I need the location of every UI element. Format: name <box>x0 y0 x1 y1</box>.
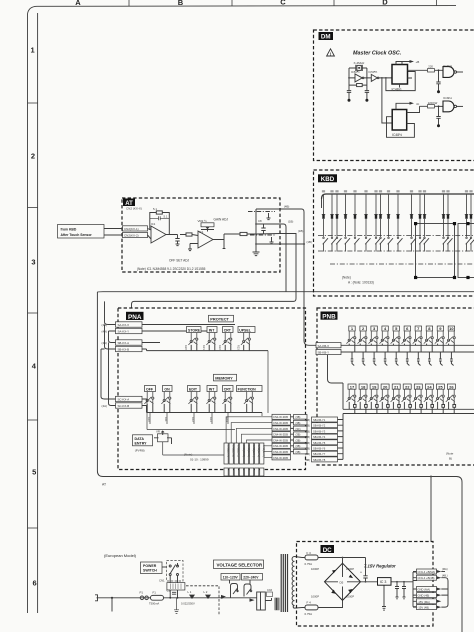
svg-text:VR: VR <box>156 430 160 434</box>
svg-text:KBD: KBD <box>321 176 335 183</box>
svg-text:-15V (4B): -15V (4B) <box>418 606 430 610</box>
svg-text:P1: P1 <box>140 591 144 595</box>
svg-text:22: 22 <box>405 384 410 389</box>
svg-text:+B: +B <box>416 60 420 64</box>
svg-text:CN4-W-3DB: CN4-W-3DB <box>273 415 288 419</box>
svg-text:(4A): (4A) <box>102 404 107 408</box>
svg-text:25: 25 <box>438 384 443 389</box>
svg-text:1000P: 1000P <box>311 595 319 599</box>
svg-text:STORE: STORE <box>188 328 201 332</box>
svg-text:(8B): (8B) <box>305 418 310 422</box>
svg-text:OFF: OFF <box>146 387 154 391</box>
svg-text:17: 17 <box>350 384 355 389</box>
svg-text:(8B): (8B) <box>305 447 310 451</box>
svg-text:0.75A: 0.75A <box>305 612 313 616</box>
svg-text:SA-KX-Y: SA-KX-Y <box>118 330 130 334</box>
svg-text:DC: DC <box>323 547 332 554</box>
svg-text:7.15V Regulator: 7.15V Regulator <box>364 564 396 569</box>
svg-text:L 1: L 1 <box>188 590 192 594</box>
svg-text:18: 18 <box>361 384 366 389</box>
svg-text:CN2(KX-2): CN2(KX-2) <box>124 234 139 238</box>
svg-text:ENTRY: ENTRY <box>135 442 148 446</box>
svg-text:F1: F1 <box>153 591 157 595</box>
svg-text:(8B): (8B) <box>305 424 310 428</box>
svg-text:CN1-4 +B(MA): CN1-4 +B(MA) <box>418 570 436 574</box>
svg-text:220/1W: 220/1W <box>428 101 438 105</box>
svg-text:R11: R11 <box>164 417 168 422</box>
svg-text:IC50⅖: IC50⅖ <box>351 70 360 74</box>
svg-text:4×: 4× <box>416 102 420 106</box>
svg-text:3: 3 <box>31 258 35 267</box>
svg-text:R23: R23 <box>237 345 241 350</box>
svg-text:CRT: CRT <box>224 328 232 332</box>
svg-text:ON: ON <box>164 387 170 391</box>
svg-text:(Note): (Note) <box>342 276 351 280</box>
svg-text:1: 1 <box>31 46 35 55</box>
svg-text:CN2(KX-1): CN2(KX-1) <box>124 227 139 231</box>
svg-text:SB-KB-Y: SB-KB-Y <box>318 351 330 355</box>
svg-text:R10: R10 <box>147 417 151 422</box>
svg-text:CN4-W-3DB: CN4-W-3DB <box>273 433 288 437</box>
svg-text:CN4-W-3DB: CN4-W-3DB <box>273 444 288 448</box>
svg-text:EDIT: EDIT <box>189 387 198 391</box>
svg-text:(MA): (MA) <box>442 567 448 571</box>
svg-text:CN3: CN3 <box>267 589 273 592</box>
svg-text:GND (MA): GND (MA) <box>418 588 431 592</box>
svg-text:IC48½: IC48½ <box>392 133 402 137</box>
svg-text:10: 10 <box>449 326 454 331</box>
svg-text:CN8(12-E): CN8(12-E) <box>247 445 250 457</box>
svg-text:(4A): (4A) <box>102 323 107 327</box>
svg-text:UPSEL: UPSEL <box>239 328 252 332</box>
svg-text:(1B): (1B) <box>288 220 293 224</box>
svg-text:POWER: POWER <box>143 564 157 568</box>
svg-text:T500mA: T500mA <box>149 602 159 606</box>
svg-text:IC48½: IC48½ <box>392 88 402 92</box>
svg-text:CN1: CN1 <box>159 579 165 583</box>
svg-text:GND (4B): GND (4B) <box>418 594 430 598</box>
svg-text:CN8(12-G): CN8(12-G) <box>257 445 260 457</box>
svg-text:IC 3: IC 3 <box>380 580 387 584</box>
svg-text:26: 26 <box>449 384 454 389</box>
svg-text:01-10 : 10999: 01-10 : 10999 <box>190 458 209 462</box>
svg-text:A : (Note: 100133): A : (Note: 100133) <box>348 281 374 285</box>
svg-text:CN4-W-3DB: CN4-W-3DB <box>273 421 288 425</box>
svg-text:(8B): (8B) <box>305 435 310 439</box>
svg-text:C8: C8 <box>258 219 262 223</box>
svg-text:(4B): (4B) <box>284 205 289 209</box>
svg-text:SB-KX-A: SB-KX-A <box>118 341 130 345</box>
svg-text:1000P: 1000P <box>346 595 354 599</box>
svg-text:SB-KB-Y8: SB-KB-Y8 <box>313 458 326 462</box>
svg-text:CN1-4 +B(4B): CN1-4 +B(4B) <box>418 576 435 580</box>
svg-text:R20: R20 <box>184 345 188 350</box>
svg-text:CN4-W-3DB: CN4-W-3DB <box>273 456 288 460</box>
svg-text:(8B): (8B) <box>305 458 310 462</box>
svg-text:(Note) IC1 NJM4558 9-1 2SC: (Note) IC1 NJM4558 9-1 2SC2320 D1,2 1S15… <box>137 267 206 271</box>
svg-text:(3B): (3B) <box>296 421 301 425</box>
svg-text:A: A <box>75 0 81 7</box>
svg-text:(3C): (3C) <box>296 427 301 431</box>
svg-text:SWITCH: SWITCH <box>143 569 157 573</box>
svg-text:SB-KB-Y3: SB-KB-Y3 <box>313 429 326 433</box>
svg-text:(3B): (3B) <box>296 433 301 437</box>
svg-text:SB-KX-B: SB-KX-B <box>118 348 130 352</box>
svg-text:2: 2 <box>31 152 35 161</box>
svg-text:(European Model): (European Model) <box>104 553 137 558</box>
svg-text:FUNCTION: FUNCTION <box>238 387 257 391</box>
svg-text:(Note: (Note <box>446 452 454 456</box>
svg-text:OFF SET ADJ: OFF SET ADJ <box>169 259 190 263</box>
svg-text:IC49⅓: IC49⅓ <box>443 96 452 100</box>
svg-text:SA-KX-X: SA-KX-X <box>118 323 130 327</box>
svg-text:220~240V: 220~240V <box>243 576 259 580</box>
svg-text:SC-KX-B: SC-KX-B <box>118 404 130 408</box>
svg-text:PNA: PNA <box>128 314 142 321</box>
svg-text:1000P: 1000P <box>311 567 319 571</box>
svg-text:21: 21 <box>394 384 399 389</box>
svg-text:(3B): (3B) <box>296 438 301 442</box>
svg-text:CN8(12-F): CN8(12-F) <box>252 445 255 457</box>
svg-text:VOLTAGE SELECTOR: VOLTAGE SELECTOR <box>217 563 263 568</box>
svg-text:(8B): (8B) <box>305 441 310 445</box>
svg-text:VR2 ½: VR2 ½ <box>198 219 208 223</box>
svg-text:F 3: F 3 <box>307 551 312 555</box>
svg-text:R13: R13 <box>209 417 213 422</box>
svg-text:SB-KB-Y2: SB-KB-Y2 <box>313 424 326 428</box>
svg-text:L 2: L 2 <box>204 590 208 594</box>
svg-text:CN8(12-B): CN8(12-B) <box>232 445 235 457</box>
svg-text:Master Clock OSC.: Master Clock OSC. <box>353 51 402 57</box>
svg-text:DM: DM <box>321 34 331 41</box>
svg-text:(1B): (1B) <box>307 240 312 244</box>
svg-text:SB-KB-Y4: SB-KB-Y4 <box>313 435 326 439</box>
svg-text:SB-KB-Y5: SB-KB-Y5 <box>313 441 326 445</box>
svg-text:(4A): (4A) <box>102 330 107 334</box>
svg-text:SB-KB-Y6: SB-KB-Y6 <box>313 447 326 451</box>
svg-text:IC50⅕: IC50⅕ <box>369 70 378 74</box>
svg-text:CRT.: CRT. <box>224 387 232 391</box>
svg-text:110~120V: 110~120V <box>223 576 239 580</box>
svg-text:CN8(12-D): CN8(12-D) <box>242 445 245 457</box>
svg-text:B): B) <box>449 457 452 461</box>
svg-text:0.75A: 0.75A <box>305 562 313 566</box>
svg-text:(4B.): (4B.) <box>442 573 448 577</box>
svg-text:SB-KB-Y1: SB-KB-Y1 <box>313 418 326 422</box>
svg-text:CN8(12-A): CN8(12-A) <box>227 445 230 457</box>
svg-text:5: 5 <box>32 468 36 477</box>
svg-text:D5: D5 <box>340 581 344 585</box>
svg-text:(8B): (8B) <box>305 452 310 456</box>
svg-text:from KBD: from KBD <box>61 228 77 232</box>
svg-text:(1B): (1B) <box>298 229 303 233</box>
svg-text:AT: AT <box>102 483 106 487</box>
svg-text:(Note): (Note) <box>184 453 192 457</box>
svg-text:C: C <box>280 0 286 7</box>
svg-text:DATA: DATA <box>135 437 145 441</box>
svg-text:23: 23 <box>416 384 421 389</box>
svg-text:IC49⅔: IC49⅔ <box>443 64 452 68</box>
svg-text:5.1: 5.1 <box>153 207 157 211</box>
svg-text:(PVR8): (PVR8) <box>135 449 145 453</box>
svg-text:1000P: 1000P <box>346 567 354 571</box>
svg-text:CN4-W-3DB: CN4-W-3DB <box>273 438 288 442</box>
svg-text:F 4: F 4 <box>307 601 312 605</box>
svg-text:(3B): (3B) <box>296 444 301 448</box>
svg-text:SC-KX-A: SC-KX-A <box>118 398 130 402</box>
svg-text:After Touch Sensor: After Touch Sensor <box>61 233 93 237</box>
svg-text:IC1: IC1 <box>151 222 156 226</box>
svg-text:PROTECT: PROTECT <box>210 317 229 322</box>
svg-text:R22: R22 <box>218 345 222 350</box>
svg-text:INT: INT <box>209 387 216 391</box>
svg-text:D: D <box>382 0 388 6</box>
svg-text:PNB: PNB <box>322 314 336 321</box>
svg-text:SA-KB-X: SA-KB-X <box>318 344 330 348</box>
svg-text:CN8(12-C): CN8(12-C) <box>237 445 240 457</box>
svg-text:+: + <box>360 571 362 575</box>
svg-text:24: 24 <box>427 384 432 389</box>
svg-text:GAIN ADJ: GAIN ADJ <box>214 218 229 222</box>
svg-text:X-4MHz: X-4MHz <box>354 61 365 65</box>
svg-text:CN8(12-H): CN8(12-H) <box>262 445 265 457</box>
svg-text:IC1: IC1 <box>199 230 204 234</box>
svg-text:MEMORY: MEMORY <box>215 376 233 381</box>
svg-text:(8B): (8B) <box>305 429 310 433</box>
svg-text:220: 220 <box>428 65 433 69</box>
svg-text:CN4-W-2DB: CN4-W-2DB <box>273 427 288 431</box>
svg-text:0.022/250V: 0.022/250V <box>181 602 195 606</box>
svg-text:R12: R12 <box>191 417 195 422</box>
svg-text:SB-KB-Y7: SB-KB-Y7 <box>313 452 326 456</box>
svg-text:CN2 (KX-X): CN2 (KX-X) <box>126 207 142 211</box>
svg-text:R21: R21 <box>202 345 206 350</box>
svg-text:-15V (MA): -15V (MA) <box>418 600 430 604</box>
svg-text:19: 19 <box>372 384 377 389</box>
svg-text:CN4-W-3DB: CN4-W-3DB <box>273 450 288 454</box>
svg-text:C1: C1 <box>167 589 171 593</box>
svg-text:R14: R14 <box>225 417 229 422</box>
svg-text:6: 6 <box>33 579 37 588</box>
svg-text:5.1: 5.1 <box>164 215 168 219</box>
svg-text:B: B <box>178 0 184 7</box>
svg-text:(3B): (3B) <box>296 415 301 419</box>
svg-text:INT: INT <box>209 328 216 332</box>
svg-text:(4A): (4A) <box>102 341 107 345</box>
svg-text:(3B): (3B) <box>296 450 301 454</box>
svg-text:20: 20 <box>383 384 388 389</box>
